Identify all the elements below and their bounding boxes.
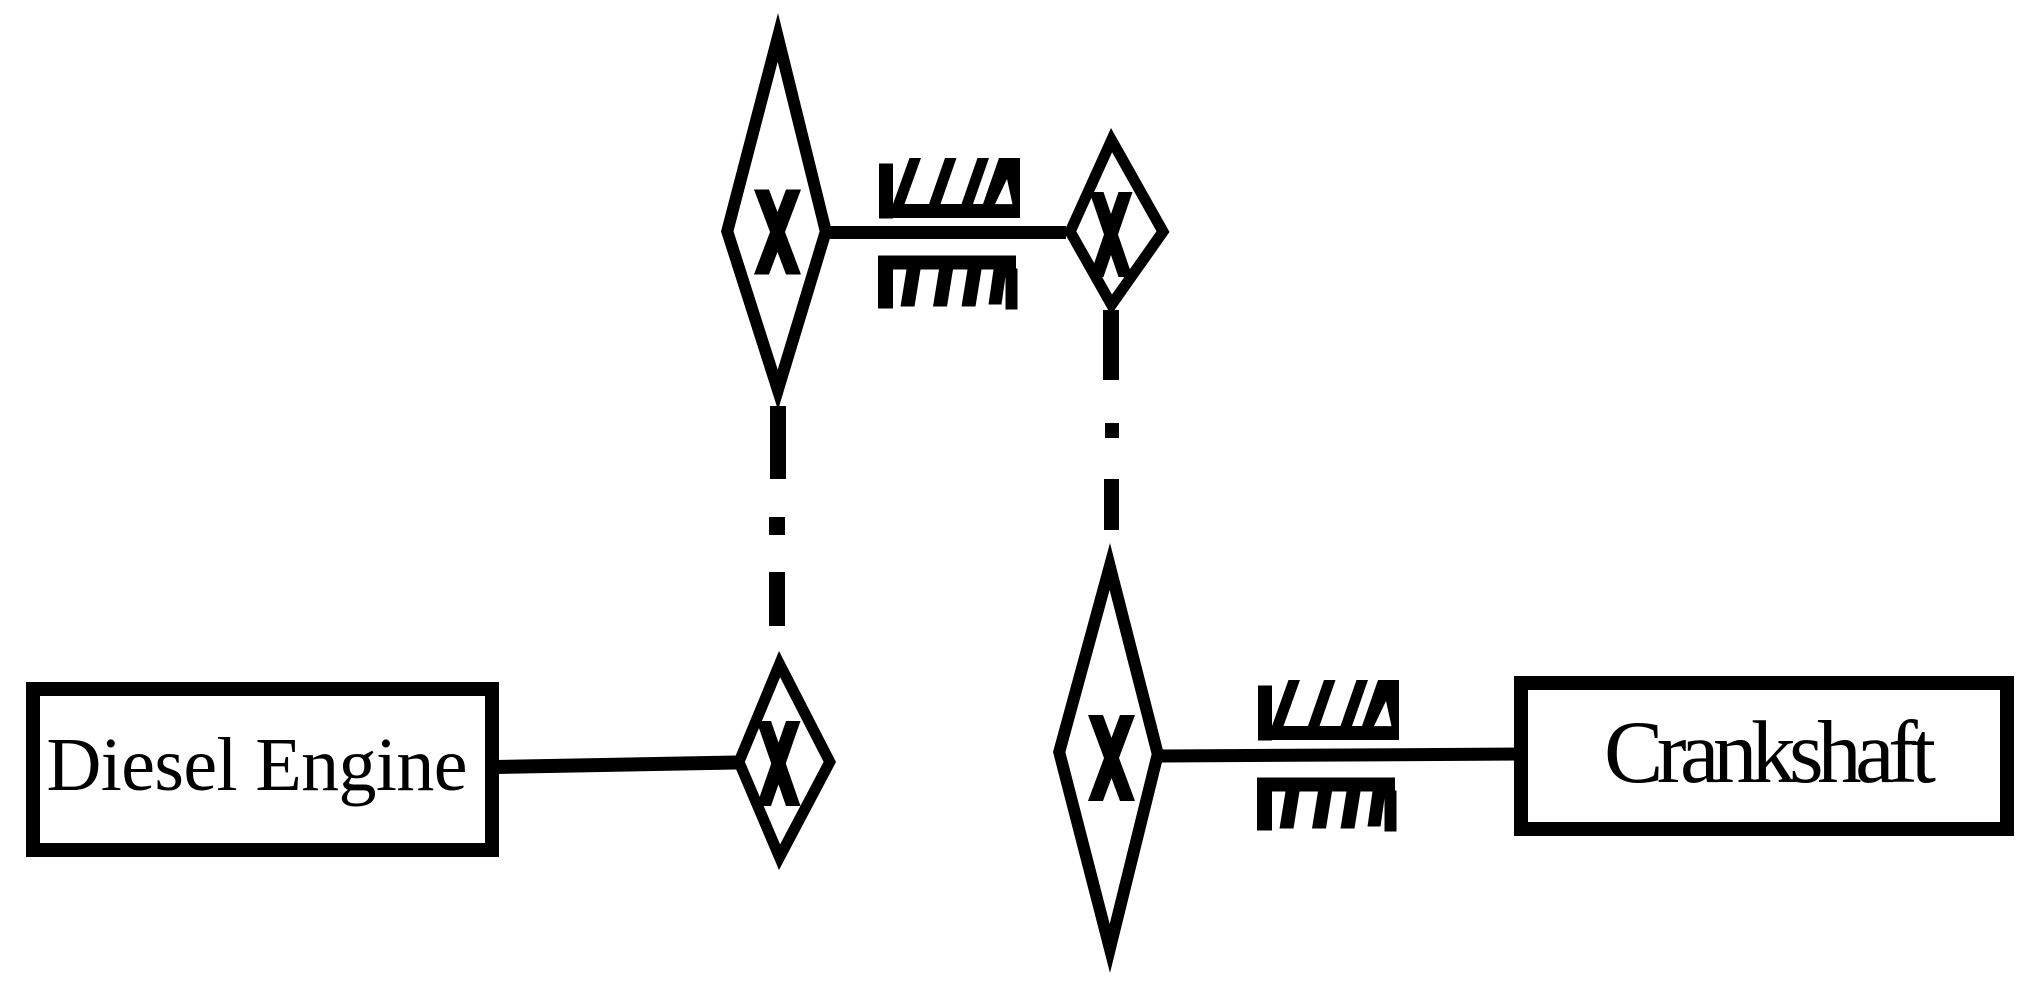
X mark of gear G3 <box>1090 192 1133 277</box>
gear G4 (large diamond, lower-right) <box>1053 543 1164 973</box>
wire: top idler shaft (gear G2 to gear G3) <box>830 226 1066 239</box>
X mark of gear G4 <box>1088 715 1135 801</box>
gear G3 (small diamond, upper-right) <box>1064 128 1170 315</box>
bearing B2 (crankshaft support, hatched frame) <box>1257 680 1399 832</box>
shaft S2 dash-dot: dash <box>1104 479 1119 530</box>
wire: engine output shaft (box to gear G1) <box>495 763 736 768</box>
box: Diesel Engine <box>33 689 492 850</box>
shaft S1 dash-dot: dash <box>769 572 785 626</box>
X mark of gear G1 <box>757 721 801 806</box>
X mark of gear G2 <box>754 190 801 275</box>
svg-text:Crankshaft: Crankshaft <box>1604 704 1936 802</box>
shaft S2 solid stem below gear G3 <box>1103 310 1119 380</box>
gear G2 (large diamond, upper-left) <box>721 13 832 410</box>
shaft S1 solid stem below gear G2 <box>770 406 786 479</box>
gear G1 (small diamond, lower-left) <box>733 651 836 870</box>
wire: crankshaft line (gear G4 to box) <box>1162 754 1523 756</box>
bearing B1 (top shaft support, hatched frame) <box>878 158 1020 310</box>
shaft S2 dash-dot: dot <box>1105 423 1119 438</box>
box: Crankshaft <box>1521 683 2007 829</box>
shaft S1 dash-dot: dot <box>769 517 785 535</box>
svg-text:Diesel Engine: Diesel Engine <box>47 723 468 807</box>
